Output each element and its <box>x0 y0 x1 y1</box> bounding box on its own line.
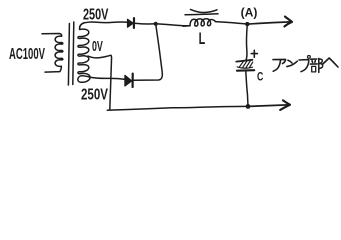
svg-text:L: L <box>199 30 206 48</box>
wire: center tap 0V to bottom rail <box>88 55 112 110</box>
choke L core lines <box>191 9 218 12</box>
glyph ン <box>288 60 292 63</box>
wire: node A down to capacitor C positive plate <box>246 24 247 60</box>
arrow: return rail to amplifier <box>248 100 290 110</box>
transformer T1 core <box>68 24 69 86</box>
svg-text:250V: 250V <box>81 87 108 104</box>
wire: node J1 to choke L <box>156 24 190 26</box>
bottom return rail <box>107 106 248 110</box>
plus sign (capacitor polarity) <box>251 50 257 57</box>
glyph 部 (right component) <box>318 58 320 72</box>
glyph ア <box>273 59 286 63</box>
svg-text:AC100V: AC100V <box>9 46 45 63</box>
glyph 部 (left component) <box>311 58 317 60</box>
transformer T1 secondary winding <box>78 23 90 83</box>
svg-text:(A): (A) <box>241 6 258 20</box>
svg-text:250V: 250V <box>83 6 109 23</box>
glyph へ <box>323 58 338 67</box>
choke L coil <box>183 19 215 26</box>
node: bottom rail junction <box>246 104 251 109</box>
diode D2 <box>125 74 133 87</box>
glyph プ <box>299 60 309 72</box>
node J1 (rectifier output junction) <box>154 22 158 26</box>
wire: secondary top tap to D1 anode <box>85 21 129 24</box>
wire: D1 cathode to node J1 <box>135 22 156 25</box>
wire: choke to node A <box>215 22 247 24</box>
wire: node J1 down and left to D2 cathode <box>134 24 163 80</box>
svg-text:0V: 0V <box>92 38 103 55</box>
diode D1 <box>128 18 135 28</box>
wire: secondary bottom tap to D2 anode <box>90 77 125 79</box>
transformer T1 primary winding <box>42 34 63 73</box>
capacitor C negative plate <box>237 69 254 72</box>
arrow: B+ output to amplifier <box>247 17 292 27</box>
label アンプ部へ (to amplifier section) <box>273 56 338 73</box>
capacitor C positive plate (hatched) <box>236 60 253 68</box>
wire: capacitor to bottom rail node <box>246 71 248 106</box>
node A junction dot <box>245 22 249 26</box>
svg-text:C: C <box>257 69 264 83</box>
